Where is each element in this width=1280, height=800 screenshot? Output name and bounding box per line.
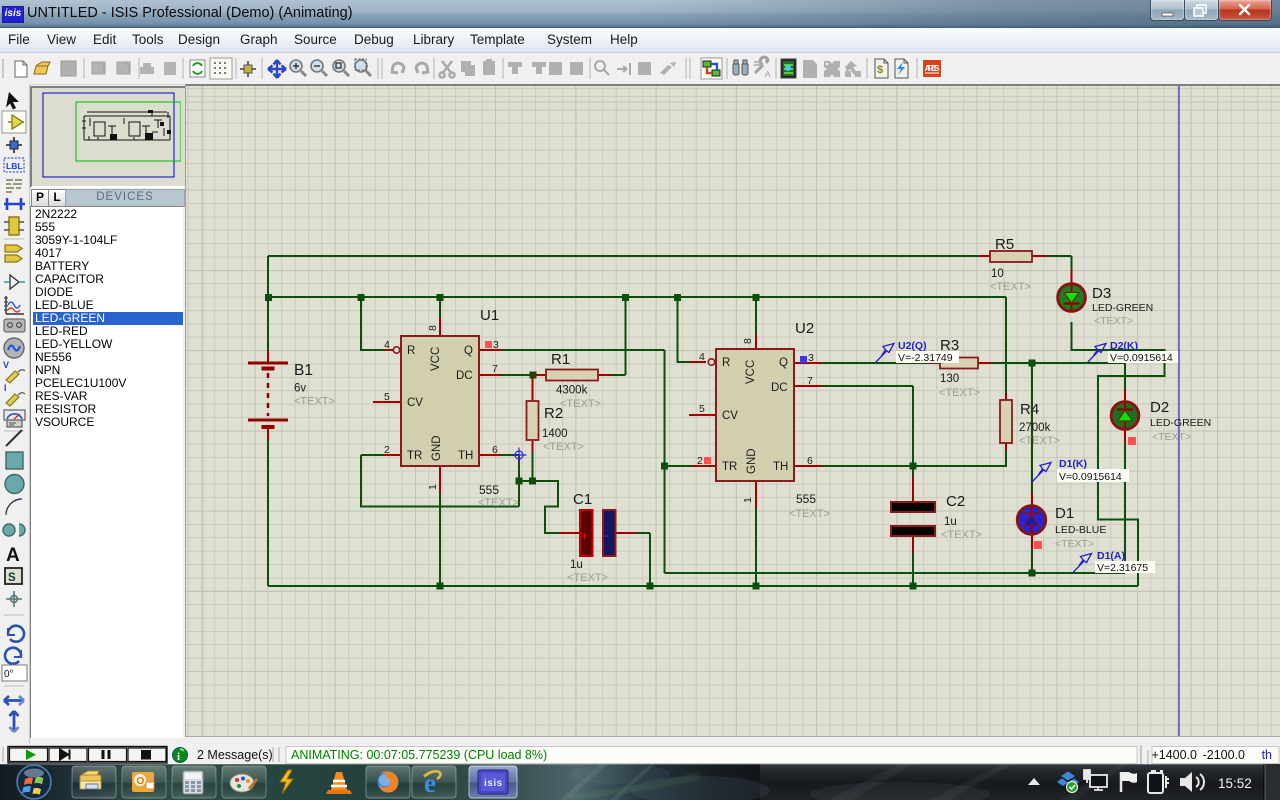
junction U1 GND/ground rail: [437, 583, 444, 590]
terminals mode: [5, 245, 22, 262]
wire R3 to LED cathodes: [992, 363, 1125, 389]
wire D3 cathode snake to ground: [1072, 322, 1165, 586]
device list: [30, 206, 183, 738]
svg-text:1u: 1u: [944, 516, 957, 528]
svg-text:<TEXT>: <TEXT>: [294, 396, 335, 408]
svg-text:<TEXT>: <TEXT>: [1019, 435, 1060, 447]
device pin mode: [4, 281, 25, 283]
svg-text:i: i: [177, 751, 180, 763]
svg-text:V=2.31675: V=2.31675: [1097, 562, 1148, 574]
pin state indicator U2 TR (high): [704, 457, 711, 464]
junction U1 Q/U2 TR: [661, 463, 668, 470]
zooms: [290, 60, 306, 76]
svg-text:TH: TH: [773, 461, 788, 473]
junction R2 bottom/C1: [529, 478, 536, 485]
svg-text:8: 8: [427, 325, 439, 331]
virtual instrument: [4, 410, 25, 420]
resistor R1: [546, 351, 601, 410]
svg-text:-: -: [605, 528, 609, 542]
voltage probe D1(K): [1032, 458, 1129, 483]
x-mirror: [4, 696, 24, 705]
svg-text:7: 7: [492, 363, 498, 375]
isis active: [469, 766, 517, 798]
property tool: [755, 57, 768, 73]
wire D1 cathode up to net: [1031, 363, 1033, 493]
wire ground bottom rail: [268, 585, 1138, 587]
svg-text:10: 10: [991, 268, 1004, 280]
svg-text:LBL: LBL: [6, 161, 23, 171]
svg-text:B1: B1: [294, 362, 313, 379]
refresh: [190, 60, 205, 77]
vlc: [331, 772, 347, 790]
menu bar: [0, 28, 1280, 53]
ie: [412, 766, 456, 798]
svg-text:1: 1: [427, 484, 439, 490]
svg-text:6: 6: [492, 444, 498, 456]
wire battery vertical: [267, 256, 269, 586]
svg-text:<TEXT>: <TEXT>: [1152, 431, 1191, 443]
resistor R2: [527, 401, 584, 453]
svg-text:D2(K): D2(K): [1110, 340, 1138, 352]
svg-text:R1: R1: [551, 351, 570, 368]
svg-text:<TEXT>: <TEXT>: [560, 398, 601, 410]
wire TH node to C1: [519, 481, 559, 533]
wire label LBL: [4, 158, 24, 172]
svg-text:<TEXT>: <TEXT>: [1094, 315, 1133, 327]
svg-text:3: 3: [493, 339, 499, 351]
svg-text:ARES: ARES: [925, 63, 940, 73]
svg-text:+: +: [581, 529, 588, 543]
subcircuit: [9, 217, 19, 235]
svg-text:130: 130: [940, 373, 959, 385]
generator: [4, 338, 24, 358]
svg-text:LED-GREEN: LED-GREEN: [1092, 302, 1153, 314]
pin state indicator U2 Q (low): [800, 356, 807, 363]
wire C2 leads green: [912, 466, 914, 586]
U1 pin names: [407, 345, 473, 462]
svg-text:TR: TR: [407, 450, 422, 462]
2D markers: [6, 591, 22, 607]
capacitor C2: [891, 493, 982, 541]
resistor R5: [990, 236, 1032, 293]
svg-text:<TEXT>: <TEXT>: [990, 281, 1031, 293]
pick/make/package/decompose: [595, 61, 630, 75]
junction D1 anode/net: [1029, 570, 1036, 577]
svg-text:CV: CV: [407, 397, 423, 409]
firefox: [366, 766, 410, 798]
2D symbol: [5, 568, 22, 584]
wire U2 GND down: [755, 508, 757, 586]
svg-text:4300k: 4300k: [556, 385, 588, 397]
rotate clockwise: [8, 626, 24, 642]
toolbar: [0, 53, 1280, 85]
svg-text:0°: 0°: [4, 669, 14, 680]
graph mode: [6, 296, 24, 314]
wire U2 Q to R3: [822, 362, 928, 364]
rotation angle box: [2, 665, 27, 681]
design explorer: [781, 59, 796, 78]
overview panel: [30, 86, 187, 188]
svg-text:5: 5: [699, 403, 705, 415]
junction U2 reset/rail B: [674, 294, 681, 301]
svg-text:1: 1: [742, 497, 754, 503]
2D circle: [5, 475, 24, 494]
wire D2 anode down: [1124, 443, 1126, 573]
2D line: [6, 430, 22, 446]
svg-text:15:52: 15:52: [1218, 776, 1252, 791]
voltage probe U2(Q): [875, 340, 959, 364]
remove sheet: [824, 61, 840, 77]
svg-text:A: A: [6, 545, 20, 566]
svg-text:<TEXT>: <TEXT>: [789, 508, 830, 520]
wire U2 DC down to TH node: [822, 386, 913, 466]
junction U1 DC/R1/R2: [530, 372, 537, 379]
svg-text:<TEXT>: <TEXT>: [478, 497, 519, 509]
pan: [268, 60, 286, 78]
red pin stubs: [268, 256, 1125, 553]
svg-text:DC: DC: [771, 382, 788, 394]
svg-text:2: 2: [384, 444, 390, 456]
2D box: [6, 452, 23, 469]
main schematic grid area: [185, 84, 1280, 737]
junction C2/ground rail: [910, 583, 917, 590]
selection arrow: [6, 92, 19, 110]
svg-text:GND: GND: [746, 448, 758, 474]
BOM: [875, 59, 888, 78]
IC U1 555 timer: [384, 307, 519, 509]
voltage probe D2(K): [1087, 340, 1178, 364]
LED D1 (blue, on): [1017, 505, 1106, 550]
resistor R4: [1000, 400, 1060, 447]
ARES: [923, 60, 941, 77]
wire U1 VCC stub: [439, 297, 441, 318]
wire U1 TR loop: [361, 455, 519, 507]
undo redo: [392, 63, 404, 73]
svg-text:LED-GREEN: LED-GREEN: [1150, 417, 1211, 429]
resistor R3: [939, 337, 980, 399]
svg-text:<TEXT>: <TEXT>: [939, 387, 980, 399]
svg-text:GND: GND: [431, 435, 443, 461]
svg-text:C1: C1: [573, 491, 592, 508]
svg-text:V: V: [3, 360, 9, 370]
svg-text:<TEXT>: <TEXT>: [1055, 538, 1094, 550]
wire R4 bottom to TH node: [913, 450, 1006, 466]
wire autorouter pressed: [701, 58, 722, 79]
y-mirror: [10, 711, 19, 732]
winamp: [280, 770, 293, 794]
svg-text:D1(K): D1(K): [1059, 458, 1087, 470]
junction dot mode: [6, 137, 22, 153]
svg-text:6v: 6v: [294, 383, 306, 395]
junction battery/rail B: [265, 294, 272, 301]
wire U1 reset pin4: [361, 297, 383, 350]
svg-text:3: 3: [808, 352, 814, 364]
grid toggle pressed: [210, 58, 232, 79]
svg-text:2: 2: [697, 455, 703, 467]
svg-text:LED-BLUE: LED-BLUE: [1055, 524, 1106, 536]
tape recorder: [4, 319, 25, 332]
svg-text:S: S: [8, 572, 16, 584]
U1 pin numbers 4,5,2,3,7,6,8,1: [384, 325, 499, 490]
svg-text:555: 555: [479, 483, 499, 497]
svg-text:6: 6: [807, 455, 813, 467]
svg-text:-2100.0: -2100.0: [1203, 748, 1245, 762]
wire U2 VCC stub: [755, 297, 757, 335]
svg-text:ANIMATING: 00:07:05.775239 (CP: ANIMATING: 00:07:05.775239 (CPU load 8%): [291, 748, 547, 762]
LED D3 (green, on): [1058, 284, 1154, 327]
svg-text:+1400.0: +1400.0: [1151, 748, 1197, 762]
wire U1 DC to R1/R2: [501, 297, 626, 375]
svg-text:V=0.0915614: V=0.0915614: [1110, 352, 1173, 364]
junction U1 TH/TR loop: [516, 478, 523, 485]
U2 pin names: [722, 357, 788, 473]
svg-text:2700k: 2700k: [1019, 422, 1051, 434]
svg-text:$: $: [877, 64, 883, 76]
wire U1 GND down: [439, 493, 441, 586]
origin: [240, 61, 256, 77]
svg-text:C2: C2: [946, 493, 965, 510]
binoculars: [733, 60, 748, 75]
svg-text:TH: TH: [458, 450, 473, 462]
svg-text:th: th: [1262, 748, 1272, 762]
svg-text:TR: TR: [722, 461, 737, 473]
svg-text:O: O: [137, 776, 145, 787]
component mode (selected): [2, 111, 26, 133]
svg-text:4: 4: [699, 351, 705, 363]
wire U1 Q to U2 TR and LED anodes: [501, 350, 1125, 573]
start orb: [17, 765, 52, 800]
svg-text:V=-2.31749: V=-2.31749: [898, 352, 953, 364]
junction C1/ground rail: [647, 583, 654, 590]
svg-text:R2: R2: [544, 405, 563, 422]
svg-text:U1: U1: [480, 307, 499, 324]
junction U1 VCC/rail B: [437, 294, 444, 301]
svg-text:VCC: VCC: [430, 347, 442, 371]
svg-text:U2: U2: [795, 320, 814, 337]
svg-text:8: 8: [742, 338, 754, 344]
svg-text:555: 555: [796, 492, 816, 506]
svg-text:R: R: [407, 345, 415, 357]
battery B1: [248, 362, 335, 427]
svg-text:Q: Q: [779, 357, 788, 369]
wire C1 right to ground: [636, 533, 650, 586]
svg-text:D1(A): D1(A): [1097, 550, 1125, 562]
wire VCC rail B: [268, 297, 1006, 393]
P / L buttons + DEVICES header: [30, 189, 183, 206]
svg-text:4: 4: [384, 339, 390, 351]
electrical check: [895, 59, 908, 78]
svg-text:VCC: VCC: [745, 360, 757, 384]
wire VCC rail A top: [268, 256, 1072, 270]
svg-text:7: 7: [807, 375, 813, 387]
2D arc: [6, 499, 22, 515]
svg-text:<TEXT>: <TEXT>: [567, 572, 608, 584]
origin crosshair marker: [512, 448, 527, 463]
svg-text:<TEXT>: <TEXT>: [941, 529, 982, 541]
junction U2 GND/ground rail: [753, 583, 760, 590]
wire D1 anode down: [1031, 548, 1033, 573]
text script: [6, 180, 22, 192]
status bar: [0, 744, 1280, 764]
sheet border: [1178, 86, 1180, 736]
wire U2 TH stub: [822, 465, 913, 467]
IC U2 555 timer: [697, 320, 830, 520]
title bar: [0, 0, 1280, 28]
pin state indicator D2 anode: [1128, 437, 1136, 445]
new sheet: [803, 60, 817, 78]
svg-text:A: A: [765, 70, 771, 79]
svg-text:R5: R5: [995, 236, 1014, 253]
block ops: [508, 62, 583, 75]
svg-text:V=0.0915614: V=0.0915614: [1059, 471, 1122, 483]
wire U2 reset pin4: [678, 297, 691, 362]
svg-text:Q: Q: [464, 345, 473, 357]
voltage probe D1(A): [1073, 550, 1156, 574]
svg-text:U2(Q): U2(Q): [898, 340, 927, 352]
U2 pin numbers 4,5,2,3,7,6,8,1: [697, 338, 814, 503]
pin state indicator U1 Q (high): [485, 341, 492, 348]
svg-text:1u: 1u: [570, 559, 583, 571]
svg-text:R4: R4: [1020, 401, 1039, 418]
wire R2 bottom: [532, 452, 534, 481]
svg-text:D3: D3: [1092, 285, 1111, 302]
capacitor C1: [567, 491, 616, 584]
junction U2 VCC/rail B: [753, 294, 760, 301]
svg-text:R: R: [722, 357, 730, 369]
junction R1/rail B: [622, 294, 629, 301]
left tool column: [0, 84, 30, 744]
svg-text:D1: D1: [1055, 505, 1074, 522]
2D closed path: [3, 524, 25, 536]
svg-text:I: I: [4, 383, 7, 393]
taskbar: [0, 764, 1280, 800]
junction U2 TH/DC/C2/R4: [910, 463, 917, 470]
svg-text:isis: isis: [484, 778, 503, 789]
svg-text:1400: 1400: [542, 428, 568, 440]
rotate anticlockwise: [5, 648, 21, 664]
pin state indicator D1 anode: [1034, 541, 1042, 549]
cut/copy/paste grey: [439, 61, 454, 78]
svg-text:CV: CV: [722, 410, 738, 422]
pinned icons: [72, 766, 517, 798]
svg-text:5: 5: [384, 391, 390, 403]
buses mode: [4, 198, 25, 210]
LED D2 (green): [1111, 399, 1211, 443]
junction R3/D1 cathode: [1029, 360, 1036, 367]
svg-text:2 Message(s): 2 Message(s): [197, 748, 273, 762]
svg-text:DC: DC: [456, 370, 473, 382]
file group: [15, 61, 27, 77]
svg-text:<TEXT>: <TEXT>: [543, 441, 584, 453]
junction U1 reset/rail B: [358, 294, 365, 301]
goto sheet: [845, 61, 857, 75]
svg-text:D2: D2: [1150, 399, 1169, 416]
